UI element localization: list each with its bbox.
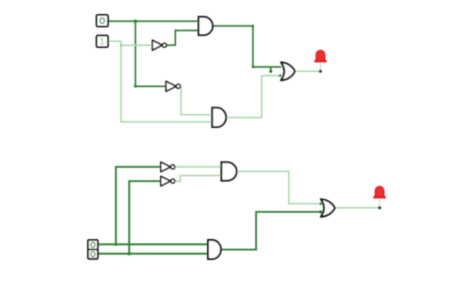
wire AND3 output to OR2 top input (logic 1) bbox=[237, 171, 321, 203]
node OR1 top input bbox=[269, 70, 272, 73]
or-gate OR2 bbox=[321, 199, 335, 217]
not-gate NOT3 bbox=[161, 162, 175, 172]
wire C1 branch up to NOT3 input (logic 0) bbox=[116, 167, 161, 244]
LED2 lead bbox=[379, 198, 381, 207]
wire C2 (dip switch bottom output to AND4 bottom input, logic 0) bbox=[98, 253, 208, 255]
wire AND4 output to OR2 bottom input (logic 0) bbox=[221, 212, 321, 250]
wire NOT3 output to AND3 top input (logic 1) bbox=[176, 166, 222, 168]
node junction A (on wire A1) bbox=[134, 20, 137, 23]
wire A2 (branch down to NOT2 input, logic 0) bbox=[135, 21, 166, 86]
wire NOT4 output to AND3 bottom input (logic 1) bbox=[176, 176, 222, 182]
or-gate OR1 bbox=[281, 62, 295, 80]
wire OR1 output to LED1 (logic 1) bbox=[295, 70, 321, 72]
node OR1 bottom input bbox=[279, 74, 282, 77]
wire stub OR1 top input node bbox=[270, 67, 272, 71]
input dip-switch C (two stacked inputs, both 0) bbox=[88, 240, 98, 259]
LED2 (lit, red) bbox=[374, 186, 386, 198]
wire NOT2 output to AND2 top input (logic 1) bbox=[180, 86, 212, 114]
wire A1 (switch A output to AND1 top input, logic 0) bbox=[108, 20, 199, 22]
node bend A2 bbox=[134, 85, 137, 88]
and-gate AND4 bbox=[208, 240, 221, 259]
wire B2 (branch down to AND2 bottom input, logic 1) bbox=[121, 45, 212, 122]
node LED2 input bbox=[378, 206, 381, 209]
wire OR2 output to LED2 (logic 1) bbox=[335, 207, 380, 209]
wire C2 branch up to NOT4 input (logic 0) bbox=[129, 181, 161, 254]
wire AND2 output to OR1 bottom input (logic 1) bbox=[226, 76, 280, 118]
and-gate AND1 bbox=[199, 17, 213, 35]
node bend AND1-out bottom bbox=[252, 66, 254, 68]
wire C1 (dip switch top output to AND4 top input, logic 0) bbox=[98, 243, 208, 245]
wire B1 (switch B output to NOT1 input, logic 1) bbox=[108, 41, 153, 45]
not-gate NOT2 bbox=[166, 81, 180, 91]
and-gate AND3 bbox=[221, 162, 236, 181]
not-gate NOT4 bbox=[161, 176, 175, 186]
and-gate AND2 bbox=[212, 108, 226, 127]
node junction C1 bbox=[114, 243, 117, 246]
input switch A (value 0) bbox=[97, 15, 109, 27]
LED1 (lit, red) bbox=[315, 50, 327, 62]
node junction C2 bbox=[128, 252, 131, 255]
node OR2 top input bbox=[319, 202, 322, 205]
node OR2 bottom input bbox=[319, 211, 322, 214]
node junction B bbox=[120, 44, 122, 46]
wire NOT1 output to AND1 bottom input (logic 0) bbox=[167, 30, 199, 45]
not-gate NOT1 bbox=[152, 40, 166, 50]
node LED1 input bbox=[319, 70, 322, 73]
node bend AND1-out top bbox=[252, 25, 254, 27]
input switch B (value 1) bbox=[97, 36, 109, 48]
LED1 lead bbox=[320, 62, 322, 70]
wire AND1 output to OR1 top input (logic 0) bbox=[213, 26, 282, 67]
